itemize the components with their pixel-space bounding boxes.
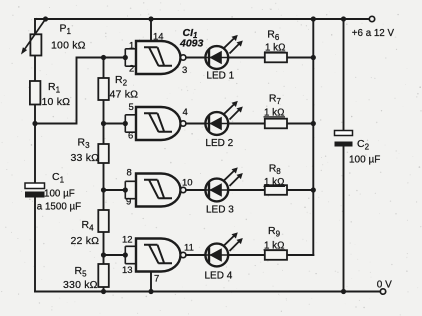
op-amp U1 label CI1 4093 bbox=[179, 27, 204, 50]
resistor R8 bbox=[264, 162, 288, 194]
op-amp U1 gate D (4093 NAND 4) bbox=[122, 235, 194, 285]
node ladder junctions bbox=[101, 55, 128, 258]
wire bottom 0V rail bbox=[35, 291, 380, 293]
LED 1 bbox=[205, 35, 242, 82]
wire R3 bottom lead bbox=[103, 163, 105, 191]
svg-text:LED 4: LED 4 bbox=[205, 271, 233, 282]
svg-text:10: 10 bbox=[182, 178, 193, 189]
svg-text:100 µF: 100 µF bbox=[44, 189, 75, 200]
node R1 bottom junction bbox=[32, 121, 37, 126]
wire R1 junction to gate1 input bbox=[35, 58, 125, 124]
wire left column pot top lead bbox=[34, 19, 36, 34]
svg-text:13: 13 bbox=[122, 265, 133, 276]
wire gate1 output to LED1 bbox=[186, 57, 206, 59]
wire R6 to bus bbox=[287, 57, 313, 59]
ground 0V terminal bbox=[377, 280, 392, 295]
resistor R3 bbox=[71, 137, 109, 165]
svg-text:6: 6 bbox=[128, 131, 133, 142]
wire LED3 to R8 bbox=[228, 189, 265, 191]
wire row3 input bbox=[104, 189, 126, 191]
wire R4 bottom lead bbox=[103, 232, 105, 255]
wire pot bottom lead bbox=[34, 56, 36, 82]
svg-text:11: 11 bbox=[184, 243, 194, 254]
svg-text:1: 1 bbox=[129, 41, 134, 52]
resistor R4 bbox=[71, 210, 109, 247]
svg-text:3: 3 bbox=[182, 65, 187, 76]
svg-text:47 kΩ: 47 kΩ bbox=[110, 89, 139, 101]
svg-text:8: 8 bbox=[127, 168, 132, 179]
wire R2 top lead bbox=[103, 58, 105, 79]
resistor R1 bbox=[30, 81, 70, 108]
capacitor C2 bbox=[335, 131, 381, 166]
wire R7 to bus bbox=[287, 123, 313, 125]
capacitor C1 bbox=[25, 171, 81, 213]
LED 3 bbox=[205, 167, 242, 215]
wire R9 to bus corner bbox=[287, 254, 313, 256]
wire R2 bottom lead bbox=[103, 100, 105, 124]
svg-text:4: 4 bbox=[183, 107, 188, 118]
wire R4 top lead bbox=[103, 190, 105, 210]
node pot wiper junction bbox=[43, 16, 48, 21]
svg-text:LED 2: LED 2 bbox=[205, 138, 233, 149]
wire pin14 to rail bbox=[150, 19, 152, 41]
resistor R2 bbox=[98, 74, 138, 101]
resistor R7 bbox=[264, 92, 288, 128]
svg-text:+6 a 12 V: +6 a 12 V bbox=[352, 28, 395, 39]
wire LED2 to R7 bbox=[228, 123, 265, 125]
svg-text:4093: 4093 bbox=[179, 38, 204, 50]
op-amp U1 gate C (4093 NAND 3) bbox=[125, 168, 192, 208]
wire R3 top lead bbox=[103, 124, 105, 144]
wire gate2 output to LED2 bbox=[186, 123, 206, 125]
potentiometer P1 bbox=[21, 19, 86, 56]
svg-text:100 kΩ: 100 kΩ bbox=[51, 40, 86, 52]
svg-text:33 kΩ: 33 kΩ bbox=[71, 152, 100, 164]
op-amp U1 gate B (4093 NAND 2) bbox=[125, 102, 187, 142]
wire pin7 to ground rail bbox=[150, 272, 152, 292]
wire gate4 output to LED4 bbox=[186, 254, 206, 256]
svg-text:0 V: 0 V bbox=[377, 280, 392, 291]
svg-text:a 1500 µF: a 1500 µF bbox=[37, 202, 81, 213]
svg-text:LED 3: LED 3 bbox=[206, 205, 234, 216]
svg-text:100 µF: 100 µF bbox=[349, 155, 380, 166]
wire row4 input bbox=[104, 254, 126, 256]
resistor R6 bbox=[264, 28, 287, 62]
wire R5 top lead bbox=[103, 255, 105, 264]
svg-text:10 kΩ: 10 kΩ bbox=[42, 96, 71, 108]
wire right bus to +V bbox=[312, 19, 314, 255]
wire C1 bottom lead bbox=[34, 198, 36, 292]
svg-text:14: 14 bbox=[153, 32, 164, 43]
svg-text:LED 1: LED 1 bbox=[206, 71, 234, 82]
svg-text:22 kΩ: 22 kΩ bbox=[71, 235, 100, 247]
wire C1 top lead bbox=[34, 124, 36, 184]
wire LED1 to R6 bbox=[228, 57, 265, 59]
wire C2 bottom lead bbox=[343, 147, 345, 292]
wire gate3 output to LED3 bbox=[186, 189, 206, 191]
svg-text:9: 9 bbox=[126, 197, 131, 208]
wire top +V rail bbox=[35, 18, 369, 20]
LED 2 bbox=[205, 101, 242, 149]
wire LED4 to R9 bbox=[228, 254, 265, 256]
svg-text:5: 5 bbox=[129, 102, 134, 113]
wire row2 input bbox=[104, 123, 126, 125]
svg-text:330 kΩ: 330 kΩ bbox=[63, 279, 98, 291]
resistor R5 bbox=[63, 264, 109, 291]
wire R5 bottom lead bbox=[103, 287, 105, 292]
node rail junctions bbox=[101, 16, 346, 294]
svg-text:7: 7 bbox=[154, 274, 159, 285]
LED 4 bbox=[205, 232, 243, 281]
op-amp U1 gate A (4093 NAND 1) bbox=[125, 32, 187, 77]
wire C2 top lead bbox=[343, 19, 345, 131]
wire R8 to bus bbox=[287, 189, 313, 191]
svg-text:2: 2 bbox=[129, 64, 134, 75]
node +V terminal bbox=[352, 16, 395, 39]
svg-text:12: 12 bbox=[122, 235, 133, 246]
wire R1 bottom lead bbox=[34, 105, 36, 124]
resistor R9 bbox=[264, 225, 288, 260]
